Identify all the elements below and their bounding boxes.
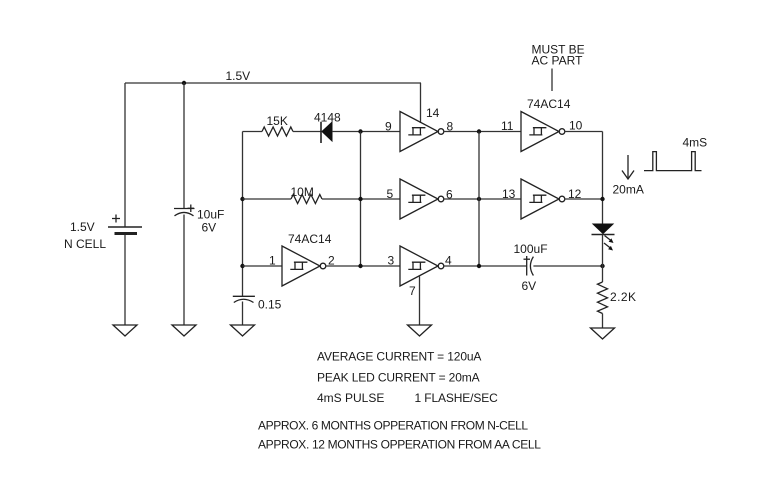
svg-text:74AC14: 74AC14	[288, 232, 332, 246]
svg-text:5: 5	[387, 187, 394, 201]
svg-text:1 FLASHE/SEC: 1 FLASHE/SEC	[415, 391, 499, 405]
wire C3 to LED bus	[533, 265, 602, 267]
junction row3 LED bus	[600, 264, 604, 268]
ground pin7	[408, 325, 432, 336]
svg-text:AC PART: AC PART	[532, 54, 584, 68]
LED light arrow 2	[604, 243, 611, 249]
wire row3 left	[243, 265, 283, 267]
ground C1	[172, 325, 196, 336]
wire pin6 out	[444, 198, 521, 200]
svg-text:20mA: 20mA	[613, 183, 644, 197]
junction row3 mid bus	[358, 264, 362, 268]
svg-text:10: 10	[569, 119, 583, 133]
ground C2	[231, 325, 255, 336]
wire right bus	[478, 132, 480, 267]
wire LED branch top	[602, 132, 604, 225]
junction left bus row2	[240, 197, 244, 201]
wire middle bus	[360, 132, 362, 267]
junction row1 mid bus	[358, 129, 362, 133]
battery B1 1.5V N CELL	[108, 226, 142, 228]
pulse waveform	[644, 152, 702, 171]
wire C1 bottom	[183, 215, 185, 326]
ground R3	[591, 328, 615, 339]
wire pin4 out	[444, 265, 527, 267]
svg-text:14: 14	[426, 106, 440, 120]
svg-text:1.5V: 1.5V	[70, 220, 95, 234]
op-amp U1F inverter 74AC14 pins 13-12	[521, 179, 565, 219]
resistor R3 2.2K	[598, 282, 608, 314]
wire 1.5V power rail	[125, 82, 421, 84]
resistor R1 15K	[262, 127, 293, 136]
junction rail / C1 branch	[182, 81, 186, 85]
svg-text:4148: 4148	[314, 111, 341, 125]
LED D2	[593, 224, 613, 234]
C3 plus sign	[524, 258, 531, 260]
capacitor C2 0.15 plates	[233, 295, 255, 297]
svg-text:13: 13	[502, 187, 516, 201]
svg-text:APPROX. 12 MONTHS OPPERATION F: APPROX. 12 MONTHS OPPERATION FROM AA CEL…	[258, 438, 541, 452]
wire pin10 out	[565, 131, 603, 133]
wire left bus	[242, 132, 244, 297]
junction row1 right bus	[477, 129, 481, 133]
wire R2 to pin5	[322, 198, 400, 200]
svg-text:6V: 6V	[522, 279, 537, 293]
wire C2 bottom	[242, 302, 244, 326]
svg-text:3: 3	[388, 254, 395, 268]
op-amp U1A inverter 74AC14 pins 9-8	[400, 112, 444, 152]
junction row2 mid bus	[358, 197, 362, 201]
svg-text:6V: 6V	[202, 221, 217, 235]
svg-text:9: 9	[385, 120, 392, 134]
svg-text:1.5V: 1.5V	[226, 69, 251, 83]
wire row2 left	[243, 198, 292, 200]
svg-text:N CELL: N CELL	[64, 237, 106, 251]
resistor R2 10M	[291, 195, 322, 204]
svg-text:APPROX. 6 MONTHS OPPERATION FR: APPROX. 6 MONTHS OPPERATION FROM N-CELL	[258, 419, 528, 433]
junction row2 right bus	[477, 197, 481, 201]
svg-text:74AC14: 74AC14	[527, 97, 571, 111]
junction pin12 LED branch	[600, 197, 604, 201]
svg-text:100uF: 100uF	[514, 242, 548, 256]
wire battery bottom	[124, 235, 126, 325]
svg-text:10M: 10M	[291, 185, 314, 199]
capacitor C3 100uF plates	[526, 256, 528, 276]
svg-text:10uF: 10uF	[197, 208, 224, 222]
op-amp U1B inverter 74AC14 pins 5-6	[400, 179, 444, 219]
op-amp U1D inverter 74AC14 pins 3-4	[400, 246, 444, 286]
wire LED to R3	[602, 235, 604, 283]
op-amp U1C inverter 74AC14 pins 1-2	[282, 246, 326, 286]
wire pin8 out	[444, 131, 521, 133]
LED light arrow 1	[605, 236, 612, 242]
junction row3 right bus	[477, 264, 481, 268]
svg-text:4mS PULSE: 4mS PULSE	[317, 391, 384, 405]
op-amp U1E inverter 74AC14 pins 11-10	[521, 112, 565, 152]
leader line note	[551, 69, 553, 92]
wire row1 left	[243, 131, 263, 133]
svg-text:4mS: 4mS	[683, 136, 708, 150]
C1 plus sign	[188, 205, 195, 213]
diode D1 4148	[320, 122, 322, 143]
wire R1 to D1	[293, 131, 321, 133]
svg-text:2.2K: 2.2K	[610, 290, 637, 304]
svg-text:0.15: 0.15	[258, 298, 282, 312]
svg-text:AVERAGE CURRENT = 120uA: AVERAGE CURRENT = 120uA	[317, 350, 481, 364]
junction left bus row3	[240, 264, 244, 268]
svg-text:1: 1	[269, 254, 276, 268]
svg-text:PEAK LED CURRENT = 20mA: PEAK LED CURRENT = 20mA	[317, 371, 480, 385]
wire pin7 to ground	[419, 276, 421, 325]
wire pin 14 supply drop	[420, 83, 422, 123]
wire C1 top	[183, 83, 185, 209]
battery plus sign	[112, 215, 120, 223]
ground battery	[113, 325, 137, 336]
capacitor C1 10uF plates	[174, 208, 195, 210]
wire R3 to ground	[602, 314, 604, 329]
current arrow 20mA	[622, 155, 634, 179]
svg-text:11: 11	[501, 119, 514, 133]
wire battery top	[124, 83, 126, 227]
svg-text:15K: 15K	[267, 114, 288, 128]
wire pin12 out	[565, 198, 603, 200]
svg-text:7: 7	[409, 284, 416, 298]
wire D1 to node	[332, 131, 400, 133]
wire pin2 out	[326, 265, 400, 267]
